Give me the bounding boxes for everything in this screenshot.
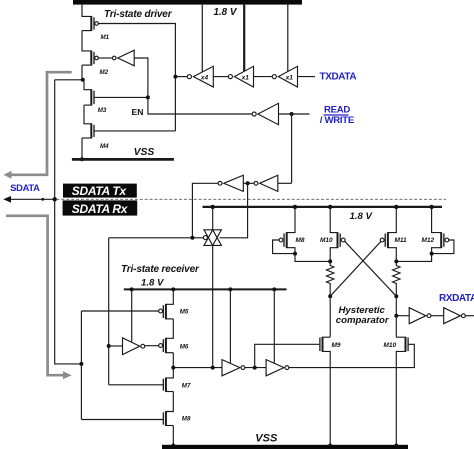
wire: RXDATA output [465, 315, 474, 317]
wire: TG feedback tap up to inverter-pair node [220, 183, 248, 238]
node: out-invB power on rail [272, 287, 276, 291]
wire: x1a output to x4 input [213, 76, 228, 78]
box: SDATA Rx [63, 200, 138, 215]
wire: M5 gate line [81, 310, 158, 312]
node: M11 source on rail [394, 205, 398, 209]
node: EN at M3 gate [146, 95, 150, 99]
transistor M11 (cross-coupled PMOS, right pair) [380, 207, 407, 262]
node: out-invA power on rail [228, 287, 232, 291]
svg-text:x1: x1 [285, 74, 294, 81]
wire: rail to TG top [212, 207, 214, 230]
node: small junction on SDATA line [41, 198, 44, 201]
node: TG gate branch [190, 236, 194, 240]
VSS bar (driver) [72, 158, 174, 161]
wire: M3 source to M4 drain [84, 105, 91, 124]
wire: out-B power drop [273, 289, 275, 363]
wire: rx-inverter power drop [131, 289, 133, 342]
svg-text:x4: x4 [200, 74, 209, 81]
node: M10 source on VSS bar [395, 444, 399, 448]
node: M10t source on rail [328, 205, 332, 209]
inverter (receiver enable, drives M6 gate) [123, 338, 145, 355]
wire: TG gate line to receiver column [192, 237, 203, 239]
wire: TG gate line continues left [109, 237, 193, 239]
inverter RX-A (points right) [409, 308, 431, 324]
wire: out-A power drop [229, 289, 231, 363]
inverter RX-B (points right) [444, 308, 466, 324]
wire: out-A to out-B [245, 367, 266, 369]
wire: tap up to M9 gate [255, 344, 320, 367]
wire: invA input to invB output [243, 182, 254, 184]
label: READ underline [324, 114, 349, 116]
wire: RX-A to RX-B [431, 315, 444, 317]
inverter out-A (points right) [222, 360, 245, 376]
wire: comparator output to RXDATA inverters [396, 315, 409, 317]
wire: power drop to x1 right [287, 5, 289, 72]
wire: READ/WRITE down to Tx line inverter pair [291, 114, 293, 183]
1.8V rail (receiver) [124, 288, 287, 290]
svg-text:1.8 V: 1.8 V [350, 211, 374, 222]
wire: M1 source to power bar [82, 5, 91, 17]
transistor M6 (PMOS, gate left) [159, 338, 189, 353]
svg-text:SDATA: SDATA [10, 182, 40, 193]
wire: cross-couple left node to M11 gate [330, 241, 381, 296]
node: rx-inverter input tap [107, 344, 111, 348]
inverter x1 (middle) [228, 66, 253, 87]
svg-text:M9: M9 [332, 342, 341, 349]
node: driver output junction [81, 78, 85, 82]
node: M9 source on VSS bar [328, 444, 332, 448]
node: right resistor top [394, 259, 398, 263]
svg-text:/ WRITE: / WRITE [320, 115, 355, 126]
wire: M1 gate / M4 gate common drive line [98, 24, 175, 131]
node: x4 inverter output on drive line [173, 75, 177, 79]
grey flow arrow Rx (pad to receiver) [6, 216, 64, 375]
wire: cross-couple right node to M10 gate [345, 241, 397, 296]
inverter pair A (points left) [218, 175, 243, 191]
wire: invA output to TG gate column [192, 183, 218, 238]
node: M5 source on rail [171, 287, 175, 291]
wire: rx-inverter output to M6 gate [145, 345, 159, 347]
inverter x4 [187, 66, 213, 87]
transistor M1 (PMOS, gate right) [82, 16, 110, 41]
inverter out-B (points right) [266, 360, 289, 376]
wire: M4 source to VSS bar [81, 138, 83, 159]
node: left resistor top [328, 259, 332, 263]
svg-text:M10: M10 [320, 237, 333, 244]
arrowhead: grey Tx [4, 171, 12, 179]
wire: left branch down to M9 drain [329, 296, 331, 337]
transistor M2 (PMOS, gate right) [82, 51, 109, 76]
arrowhead: grey Rx [63, 371, 72, 379]
wire: EN net (inverter input, M3 gate, to READ/WRITE inverter) [134, 58, 252, 114]
svg-text:VSS: VSS [134, 147, 155, 158]
wire: right branch down to M10 drain [395, 296, 397, 337]
svg-text:M10: M10 [384, 342, 397, 349]
node: between inverter pair [246, 181, 250, 185]
node: left comparator branch [328, 294, 332, 298]
svg-text:x1: x1 [241, 74, 250, 81]
grey flow arrow Tx (driver output to pad) [11, 72, 72, 175]
wire: power drop to x4 [201, 5, 203, 72]
transistor M3 (NMOS, gate right) [84, 89, 148, 114]
wire: READ/WRITE input [279, 113, 310, 115]
wire: hysteresis feedback to M10 gate [289, 344, 415, 367]
node: comparator M9 gate tap [253, 366, 257, 370]
wire: TXDATA input [298, 76, 316, 78]
wire: M2 drain down to driver output node [81, 65, 83, 80]
wire: x1b output to x1a input [254, 76, 273, 78]
box: SDATA Tx [63, 184, 137, 198]
wire: receiver output line [173, 367, 222, 369]
node: M4 source on VSS [80, 157, 84, 161]
svg-text:M5: M5 [180, 309, 189, 316]
svg-text:M7: M7 [182, 382, 191, 389]
1.8V rail (comparator) [203, 206, 443, 208]
transistor M5 (PMOS, gate left) [159, 304, 189, 319]
svg-text:1.8 V: 1.8 V [214, 7, 238, 18]
svg-text:Tri-state receiver: Tri-state receiver [121, 264, 200, 275]
wire: x4 output to drive line [175, 76, 187, 78]
wire: M6 drain to output node [172, 353, 174, 368]
svg-text:M3: M3 [98, 107, 107, 114]
svg-text:M8: M8 [182, 415, 191, 422]
svg-text:READ: READ [324, 104, 350, 115]
svg-text:M8: M8 [296, 237, 305, 244]
svg-text:1.8 V: 1.8 V [141, 278, 165, 289]
inverter (EN, drives M2 gate) [112, 50, 134, 66]
node: M8t source on rail [293, 205, 297, 209]
wire: M1 drain to M2 source [82, 31, 91, 51]
svg-text:M4: M4 [100, 143, 109, 150]
wire: M5 source to rail [166, 289, 173, 304]
resistor right [393, 261, 400, 296]
wire: TG bottom to receiver output node [212, 245, 214, 367]
svg-text:RXDATA: RXDATA [439, 293, 474, 304]
node: M12 source on rail [429, 205, 433, 209]
wire: dotted bus separator line [57, 198, 447, 200]
svg-text:M11: M11 [395, 237, 408, 244]
wire: SDATA net vertical (driver output to receiver input) [55, 80, 82, 364]
wire: receiver input column (SDATA to M5/M8 gates) [80, 311, 82, 420]
resistor left [327, 261, 334, 296]
wire: driver output node to SDATA column [55, 79, 84, 81]
transistor M7 (NMOS, gate left) [109, 378, 191, 392]
wire: SDATA pad line with arrow [9, 198, 55, 200]
svg-text:SDATA Tx: SDATA Tx [72, 184, 128, 198]
transistor M12 (load PMOS, diode connected) [422, 207, 454, 256]
wire: M3 drain up to output node [84, 80, 91, 90]
node: TG bottom on output line [211, 366, 215, 370]
wire: M7 drain to output node [166, 368, 173, 378]
transistor M8 (NMOS, gate left) [81, 411, 191, 426]
transistor M9 (comparator NMOS left) [320, 337, 341, 446]
wire: receiver enable column (TG gate to M7 gate) [108, 238, 110, 385]
inverter (READ/WRITE to EN) [252, 103, 278, 124]
1.8V power bar (top) [73, 0, 302, 5]
transmission gate (bus keeper) [203, 230, 221, 246]
wire: power drop to x1 middle (thick) [243, 5, 245, 72]
inverter x1 (right) [272, 66, 297, 87]
wire: M8 source to bottom VSS bar [172, 426, 174, 446]
transistor M10 (cross-coupled PMOS, left pair) [320, 207, 345, 262]
svg-text:M12: M12 [422, 237, 435, 244]
node: READ/WRITE branch [290, 112, 294, 116]
svg-text:M6: M6 [180, 343, 189, 350]
svg-text:Tri-state driver: Tri-state driver [104, 9, 173, 20]
wire: rx-inverter input [109, 345, 123, 347]
node: M8 source on VSS bar [172, 444, 176, 448]
svg-text:TXDATA: TXDATA [320, 71, 357, 82]
node: TG on rail [211, 205, 215, 209]
svg-text:comparator: comparator [336, 315, 390, 326]
node: RXDATA tap [394, 314, 398, 318]
wire: M8 drain to left resistor node [295, 254, 330, 262]
svg-text:M1: M1 [101, 34, 110, 41]
svg-text:EN: EN [132, 107, 144, 117]
transistor M8 (load PMOS, diode connected) [273, 207, 305, 256]
svg-text:M2: M2 [100, 69, 109, 76]
wire: M2 gate to EN inverter output [98, 57, 112, 59]
wire: invB input from READ/WRITE [278, 182, 292, 184]
node: SDATA joins receiver input [79, 362, 83, 366]
transistor M4 (NMOS, gate right) [82, 123, 175, 149]
node: SDATA junction [53, 197, 57, 201]
wire: M7 source to M8 drain [166, 392, 173, 412]
wire: M5 drain to M6 source [166, 319, 173, 338]
node: right comparator branch [394, 294, 398, 298]
VSS bar (bottom) [162, 445, 408, 449]
node: rx-inverter power on rail [130, 287, 134, 291]
svg-text:SDATA Rx: SDATA Rx [72, 202, 129, 216]
wire: M12 drain to right resistor node [396, 254, 431, 262]
arrowhead: SDATA left [3, 196, 11, 203]
node: receiver output [171, 366, 175, 370]
transistor M10 (comparator NMOS right) [384, 337, 409, 446]
svg-text:VSS: VSS [255, 432, 278, 444]
inverter pair B (points left) [254, 175, 278, 191]
